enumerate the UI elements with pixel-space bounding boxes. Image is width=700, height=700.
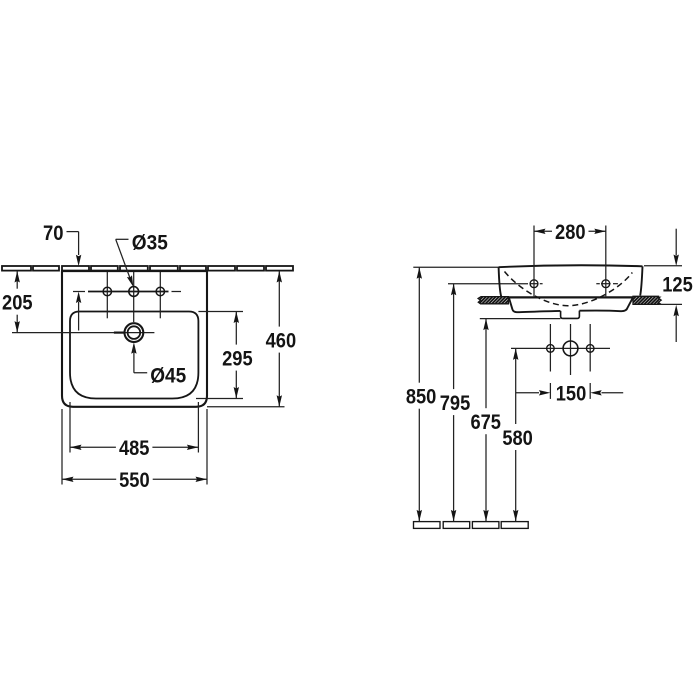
dimension 795 top reference line (through fixing holes): [448, 283, 528, 285]
trap hole centerline vertical left: [549, 324, 551, 372]
dimension 295 line: [235, 312, 237, 399]
svg-text:295: 295: [222, 346, 253, 370]
tap hole centerline vertical left: [106, 272, 108, 318]
dimension 675 line: [485, 319, 487, 522]
trap hole centerline vertical middle: [570, 324, 572, 375]
dimension 580 line: [515, 348, 517, 521]
svg-text:795: 795: [440, 391, 471, 415]
white masks under dimension labels: [0, 218, 696, 492]
tap hole left: [103, 287, 111, 295]
dimension 125 bottom reference line: [659, 303, 682, 305]
tap hole centerline horizontal: [73, 291, 85, 293]
leader for D45 drain: [131, 342, 136, 354]
svg-text:Ø35: Ø35: [132, 231, 168, 255]
svg-text:850: 850: [406, 385, 437, 409]
hidden bowl contour (dashed arc): [505, 272, 633, 306]
trap hole right: [586, 345, 594, 353]
basin outer outline (front view): [62, 271, 207, 407]
fixing hole right (side view): [605, 226, 607, 297]
drain hole outer circle (D45): [124, 323, 143, 342]
svg-text:205: 205: [2, 291, 33, 315]
svg-text:280: 280: [555, 220, 586, 244]
inner bowl outline (front view): [70, 312, 198, 399]
svg-text:675: 675: [470, 410, 501, 434]
fixing hole left (side view): [533, 226, 535, 297]
drain centerline horizontal (y=332.6): [12, 332, 154, 334]
tap hole middle (D35): [129, 287, 139, 297]
dimension 150 line: [516, 392, 539, 394]
dimension 70 leader: [65, 231, 79, 233]
svg-text:125: 125: [662, 272, 693, 296]
wall section left (hatched): [478, 297, 508, 304]
trap holes centerline horizontal: [511, 347, 610, 349]
dimension 550 extension lines: [61, 409, 63, 485]
dimension 460 line: [278, 271, 280, 407]
svg-text:150: 150: [556, 381, 587, 405]
dimension 850 line: [418, 267, 420, 521]
tap hole centerline vertical right: [159, 272, 161, 318]
dimension 205 line: [16, 271, 18, 333]
floor line boxes (right view): [414, 522, 529, 529]
extension line at basin bottom (y=406.8): [207, 406, 285, 408]
dimension 485 line: [70, 446, 198, 448]
basin underside outline (side view): [509, 298, 633, 313]
overflow hole middle: [563, 341, 578, 356]
dimension 485 extension lines: [69, 402, 71, 453]
svg-text:70: 70: [43, 221, 64, 245]
basin rim line at wall plane: [507, 296, 634, 298]
tap hole right: [156, 287, 164, 295]
dimension value labels: [2, 220, 693, 492]
svg-text:Ø45: Ø45: [150, 363, 186, 387]
extension line at bowl bottom (y=398.5): [196, 398, 243, 400]
svg-text:460: 460: [266, 328, 297, 352]
tap hole centerline vertical middle: [133, 272, 135, 322]
svg-text:550: 550: [119, 468, 150, 492]
leader for D35 tap hole: [116, 238, 129, 240]
dimension 675 top reference line: [480, 318, 561, 320]
svg-text:485: 485: [119, 436, 150, 460]
basin right edge (side view): [640, 266, 642, 295]
trap hole left: [547, 345, 555, 353]
extension line at bowl top (y=311.5): [198, 311, 243, 313]
basin top edge (side view): [499, 265, 643, 267]
svg-text:580: 580: [502, 426, 533, 450]
drain outlet stub (side view): [561, 311, 580, 319]
wall section right (hatched): [633, 296, 661, 304]
dimension 125 line: [675, 229, 677, 256]
basin top edge (front view): [61, 270, 208, 272]
drain hole inner circle: [128, 326, 141, 339]
dimension 125 top reference line: [644, 265, 682, 267]
dimension 550 line: [62, 478, 207, 480]
dimension 280 line: [534, 230, 606, 232]
basin left edge (side view): [499, 267, 502, 296]
wall mounting rail (left view, row of hollow dashes): [2, 266, 293, 271]
dimension 850 top reference line: [413, 266, 498, 268]
dimension 795 line: [453, 284, 455, 522]
trap hole centerline vertical right: [589, 324, 591, 372]
